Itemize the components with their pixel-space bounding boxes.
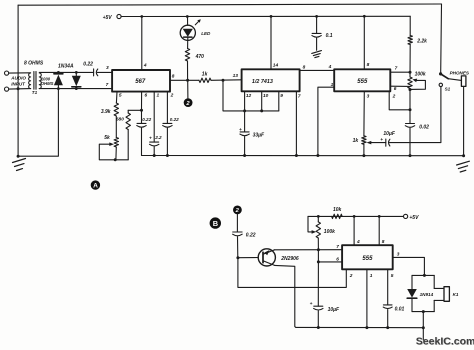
svg-text:SeekIC.com: SeekIC.com [416,335,474,347]
terminal +5V supply [117,14,121,18]
IC U3 555 timer circuit A [334,69,390,91]
wire 555A pin 2 L to node [389,91,410,109]
node dot diode D1 top [57,71,60,74]
capacitor 0.22 input coupling [94,69,98,76]
svg-text:6: 6 [336,257,339,263]
svg-text:+: + [239,128,242,133]
wire 555B pin 1 to ground bus [366,269,368,327]
svg-text:555: 555 [362,256,373,262]
wire B rail +5V [308,215,403,217]
IC U2 1/2 7413 [242,69,300,91]
svg-text:8: 8 [172,74,175,80]
wire 5k wiper loop [99,144,128,160]
wire jack sleeve down to ground bus [463,86,465,155]
svg-text:10k: 10k [333,207,342,213]
svg-text:2N2906: 2N2906 [280,256,299,262]
svg-text:1: 1 [331,82,334,88]
svg-text:1: 1 [157,93,160,99]
wire base node down and right to 555B pin 2 [238,258,346,288]
svg-text:0.02: 0.02 [419,125,429,131]
wire collector down to B ground bus [275,265,296,327]
wire 7413 pins 12 10 9 tie bus [245,110,279,112]
svg-text:1N914: 1N914 [420,292,434,297]
IC U4 555 timer circuit B [342,245,393,269]
wire 7413 pin 7 to ground bus [295,91,297,155]
node 2 circuit A [184,98,193,107]
svg-text:470: 470 [195,54,205,60]
1k wiper arrowhead and wire to 10uF [367,141,372,145]
svg-text:100k: 100k [415,71,426,77]
capacitor C9 0.22 coupling B [233,232,243,258]
wire top border line left corner to right corner [18,4,441,5]
diode D1 1N34A pointing up [54,72,63,88]
svg-text:7: 7 [106,82,109,88]
ground input ground symbol [13,159,26,171]
svg-text:567: 567 [135,79,146,85]
svg-text:0.1: 0.1 [326,33,333,39]
svg-text:7: 7 [395,65,398,71]
svg-text:INPUT: INPUT [11,82,26,87]
svg-text:3: 3 [367,93,370,99]
capacitor C4 0.22 loop filter [163,123,172,157]
svg-text:8: 8 [303,64,306,70]
text labels part A1 [10,15,369,139]
wire capacitor to 567 pin 3 [97,71,112,73]
wire 567 pin 8 output [170,79,199,81]
wire 555B pin 3 to relay [393,257,425,275]
LED D3 with resistor [180,15,201,48]
text labels part A2 [101,39,470,145]
terminal audio input top [5,71,9,75]
wire 680 bottom to pot loop [127,130,129,160]
switch S1 common blob and lever [439,72,442,75]
wire 1k to 7413 pin 13 [211,79,242,82]
wire +5V rail corner down through 2.2k [409,16,411,35]
svg-text:33µF: 33µF [253,133,265,139]
node dot diode D1 bottom [57,87,60,90]
svg-text:0.22: 0.22 [170,117,179,122]
resistor R7 2.2k [408,36,412,45]
wire pin 6 node down to 10uF [317,262,319,306]
svg-text:3.9k: 3.9k [101,109,111,115]
capacitor C10 10uF electrolytic B [314,306,323,329]
capacitor C5 33uF electrolytic [240,111,249,157]
wire left border vertical down to input ground [17,5,19,156]
svg-text:555: 555 [357,79,368,85]
svg-text:A: A [93,183,98,190]
potentiometer R9 1k volume [362,136,366,145]
svg-text:1: 1 [370,273,373,279]
wire relay node down past ground bus [422,312,424,340]
terminal +5V circuit B [404,214,408,218]
diode D2 1N34A pointing down [72,72,81,88]
ground symbol right end of bus [457,161,470,172]
wire 10uF to switch contact [390,87,441,143]
svg-text:PHONES: PHONES [450,70,470,75]
wire 7413 pin 10 [261,91,263,111]
wire audio input bottom to transformer primary [9,88,31,91]
svg-text:0.22: 0.22 [83,61,93,67]
wire 1k bottom to ground bus [363,144,365,155]
diode D4 1N914 [407,275,417,311]
wire ground bus circuit B [296,326,424,328]
wire 567 pin 2 down [166,92,168,124]
svg-text:6: 6 [145,93,148,99]
wire node down to 0.02 [409,89,411,124]
switch S1 open contact [439,83,442,86]
svg-text:680: 680 [116,117,124,123]
wire audio input top to transformer primary [9,72,31,74]
svg-text:10: 10 [263,93,269,99]
wire lever to phone jack [448,79,461,81]
transformer T1 core bars [33,72,35,90]
svg-text:4: 4 [356,239,360,245]
svg-text:100k: 100k [324,229,335,235]
wire 555A pin 8 to rail [363,16,365,69]
svg-text:+: + [149,136,152,141]
wire emitter to 555B pin 7 [275,249,343,251]
wire diode bottom node down to ground corner [18,89,58,157]
svg-text:3: 3 [106,65,109,71]
node dot diode D2 top [75,71,78,74]
svg-text:1k: 1k [353,138,359,144]
terminal audio input bottom [5,87,9,91]
svg-text:7: 7 [336,244,339,250]
wire 555A pin 7 to 2.2k node [390,71,410,73]
potentiometer R11 100k B [316,222,320,238]
5k wiper arrowhead [109,142,114,146]
wire node 2 down to 0.22 [236,214,238,232]
svg-text:S1: S1 [445,86,451,91]
wire +5V rail [121,15,410,17]
svg-text:8 OHMS: 8 OHMS [24,61,44,67]
svg-text:12: 12 [246,93,252,99]
resistor R4 3.9k [114,103,118,116]
transformer T1 secondary winding [39,73,41,89]
svg-text:3: 3 [397,251,400,257]
wire 567 pin 5 [115,92,118,103]
svg-text:1/2 7413: 1/2 7413 [252,79,273,85]
potentiometer R8 100k [408,77,412,89]
node circle A label [91,180,100,189]
svg-text:K1: K1 [453,292,459,297]
svg-text:8: 8 [367,62,370,68]
svg-text:5: 5 [391,273,394,279]
wire node to numbered node 2 circle [187,80,189,98]
svg-text:+5V: +5V [409,215,419,221]
transformer T1 primary winding [29,73,31,89]
wire 567 pin 6 down [141,92,143,111]
svg-text:8: 8 [382,239,385,245]
wire 470 to 567 pin 8 node [187,61,189,80]
relay K1 loop top [412,274,434,276]
potentiometer R5 5k [114,138,118,148]
wire rail corner down to 100k wiper [308,216,313,232]
wire 555B pin 5 down [387,269,389,305]
svg-text:0.01: 0.01 [395,306,405,312]
svg-text:14: 14 [273,62,279,68]
relay loop bottom [412,311,434,313]
wire 100k pot top to rail [317,216,319,222]
svg-text:0.22: 0.22 [246,233,256,239]
wire 7413 pin 12 [244,91,246,111]
svg-text:1k: 1k [202,72,208,78]
svg-text:2.2: 2.2 [154,135,162,140]
wire pin 6 branch to 680 [128,109,141,111]
capacitor C3 2.2 electrolytic [150,142,159,157]
capacitor C6 0.1 bypass with ground [312,15,321,50]
100k wiper loop [410,80,425,89]
svg-text:4: 4 [143,63,147,69]
wire right border vertical down to switch S1 common [440,4,443,73]
svg-text:4: 4 [328,64,332,70]
wire 555B pin 4 to rail [353,216,355,245]
node circle B label [210,217,221,228]
wire 3.9k to 5k pot [115,116,117,138]
svg-text:13: 13 [233,73,239,79]
ground symbol under 0.1 [312,51,322,58]
wire 567 pin 1 down [153,92,155,143]
svg-text:+: + [310,302,313,307]
wire secondary top to capacitor 0.22 [39,71,93,73]
svg-text:2: 2 [349,273,353,279]
wire node down to 7413 input bus [223,80,245,111]
svg-text:OHMS: OHMS [41,81,54,86]
svg-text:7: 7 [298,94,301,100]
capacitor C7 0.02 [405,124,414,158]
wire 7413 pin 14 to rail [270,16,272,69]
svg-text:2.2k: 2.2k [416,39,427,45]
transistor Q1 2N2906 [258,249,275,266]
wire 567 pin 4 to +5V rail [141,17,143,71]
svg-text:+5V: +5V [103,15,113,21]
capacitor C11 0.01 [383,305,392,329]
wire secondary bottom to 567 pin 7 [39,88,112,90]
op-amp IC U1 567 tone decoder [112,70,170,92]
svg-text:0.22: 0.22 [142,117,151,122]
wire 555A pin 6 [390,85,410,87]
wire 555A pin 1 to ground [318,87,334,155]
text labels part B [93,183,474,349]
svg-text:9: 9 [280,93,283,99]
node 2 circuit B [233,206,242,215]
svg-text:T1: T1 [32,90,38,95]
resistor R10 10k [332,214,343,218]
wire 7413 pin 9 [278,91,280,111]
wire base to transistor [238,257,258,259]
resistor R3 1k [199,78,211,82]
svg-text:6: 6 [394,86,397,92]
wire pot bottom to pin 7 node [317,238,319,250]
wire 7413 pin 8 to 555 pin 4 [300,69,335,71]
wire 555B pin 8 to rail [378,216,380,245]
wire 2.2k to pin 7 node [409,45,411,78]
svg-text:5: 5 [119,93,122,99]
svg-text:+: + [380,138,383,143]
svg-text:5k: 5k [104,135,110,141]
svg-text:10µF: 10µF [383,131,395,137]
capacitor C8 10uF electrolytic coupling [386,139,390,146]
wire 555B pin 6 bridge [318,261,342,263]
svg-text:2: 2 [170,93,174,99]
relay K1 coil [434,275,449,311]
svg-text:LED: LED [201,31,211,36]
resistor R6 680 [126,113,130,130]
svg-text:AUDIO: AUDIO [10,76,26,81]
wire 5k bottom to loop [115,147,117,160]
svg-text:1N34A: 1N34A [58,64,74,70]
node dot diode D2 bottom [75,87,78,90]
node junction dot left vertical on input bottom wire [17,87,20,90]
svg-text:2: 2 [392,93,396,99]
capacitor C2 0.22 timing on pin 6 [137,110,146,155]
wire 555A pin 3 down [363,91,365,135]
wire ground bus circuit A [142,155,464,157]
resistor R2 470 [185,49,189,62]
svg-text:10µF: 10µF [328,307,340,313]
svg-text:B: B [213,219,218,228]
phones jack plug [461,76,466,87]
